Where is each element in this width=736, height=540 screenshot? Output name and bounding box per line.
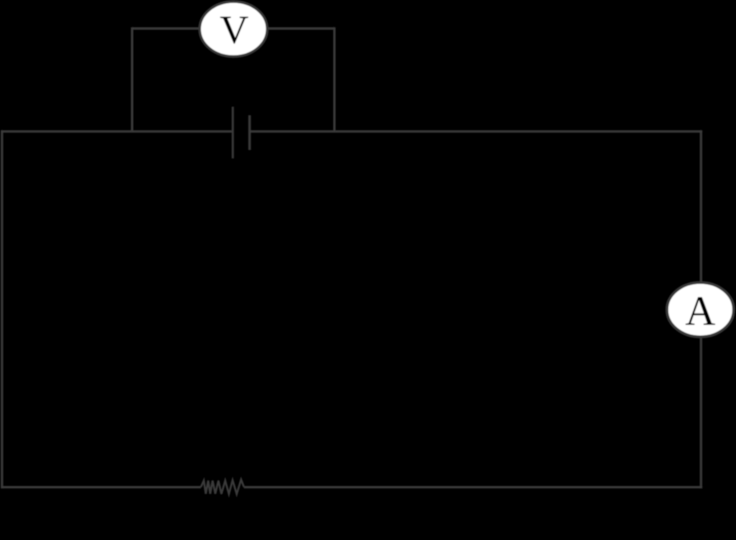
ammeter label A <box>686 297 716 325</box>
battery cell: short plate (right) <box>248 115 251 150</box>
wire: right vertical side <box>700 130 702 488</box>
resistor R (zigzag) <box>201 480 244 494</box>
wire: top left segment (battery left lead) <box>1 130 232 132</box>
wire: bottom left segment (resistor left lead) <box>1 486 201 488</box>
wire: left vertical side <box>1 130 3 488</box>
wire: bottom right segment (resistor right lead) <box>244 486 702 488</box>
battery cell: long plate (left) <box>232 107 234 159</box>
ammeter U2 ellipse <box>667 283 734 337</box>
voltmeter U1 ellipse <box>200 2 268 57</box>
wire: top right segment (battery right lead) <box>251 130 703 132</box>
wire: voltmeter loop left vertical <box>131 27 133 131</box>
wire: voltmeter loop right vertical <box>333 27 335 131</box>
voltmeter label V <box>220 17 248 44</box>
wire: voltmeter loop horizontal <box>132 27 334 29</box>
